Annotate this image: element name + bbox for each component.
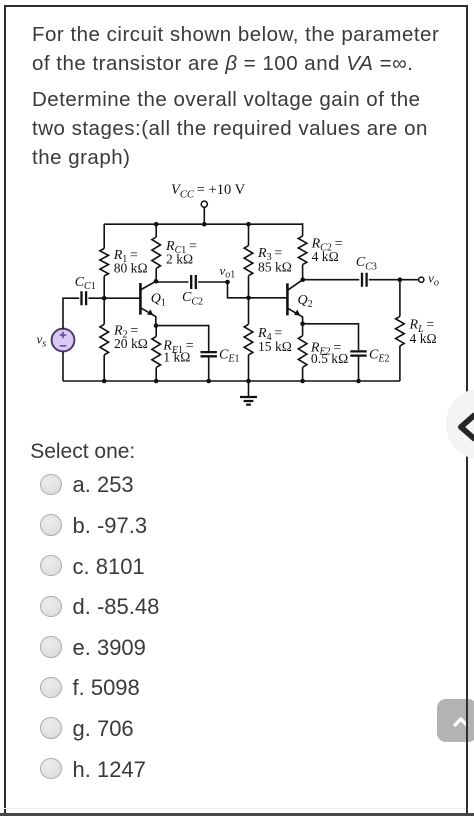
select one (30, 440, 135, 464)
junction dot emitter Q2 (300, 322, 305, 327)
junction dot ground rail CE1 (206, 379, 211, 384)
svg-text:1 kΩ: 1 kΩ (163, 349, 190, 364)
svg-text:vo1: vo1 (220, 263, 236, 281)
wire output node to vo terminal (400, 279, 418, 281)
VCC supply terminal (201, 201, 207, 207)
junction dot emitter Q1 (154, 323, 159, 328)
svg-text:20 kΩ: 20 kΩ (114, 336, 148, 351)
svg-text:4 kΩ: 4 kΩ (312, 249, 339, 264)
resistor RC1 2k (155, 224, 157, 237)
junction dot output node (398, 277, 403, 282)
Q2 emitter arrow (294, 310, 300, 316)
junction dot ground rail R2 (102, 379, 107, 384)
svg-text:CC3: CC3 (356, 255, 377, 272)
capacitor CC1 (82, 291, 87, 305)
junction dot collector Q1 (154, 279, 159, 284)
resistor RC2 4k (302, 223, 304, 236)
wire CC1 to base node (88, 297, 104, 299)
output terminal vo (419, 277, 424, 282)
scroll to top button (437, 699, 474, 742)
Q1 emitter arrow (147, 309, 153, 315)
junction dot VCC/top rail (202, 222, 207, 227)
wire Q2 collector to CC3 (303, 279, 360, 281)
wire CE2 to ground rail (358, 357, 360, 382)
right edge drawer handle circle (446, 388, 474, 460)
svg-text:4 kΩ: 4 kΩ (410, 331, 437, 346)
wire vs to CC1 (63, 298, 79, 329)
svg-text:15 kΩ: 15 kΩ (258, 339, 292, 354)
capacitor CE2 (350, 351, 366, 355)
junction dot ground rail R4/gnd (246, 379, 251, 384)
wire CE1 to ground rail (208, 357, 210, 381)
resistor RE2 0.5k (302, 324, 304, 336)
resistor RL 4k (399, 280, 401, 317)
svg-text:VCC = +10 V: VCC = +10 V (171, 182, 246, 200)
resistor R1 80k (103, 224, 105, 248)
ground (248, 381, 250, 397)
svg-text:vo: vo (428, 271, 439, 289)
resistor R3 85k (248, 224, 250, 245)
capacitor CE1 (201, 352, 217, 356)
wire top supply rail (104, 223, 302, 225)
junction dot ground rail CE2 (356, 379, 361, 384)
capacitor CC3 (362, 273, 367, 287)
svg-text:2 kΩ: 2 kΩ (166, 251, 193, 266)
junction dot RC1/top rail (154, 222, 159, 227)
wire CC3 to output node (369, 279, 400, 281)
junction dot R3/R4 node (246, 296, 251, 301)
junction dot R3/top rail (246, 222, 251, 227)
svg-text:vs: vs (37, 332, 47, 350)
wire Q1 collector to CC2 (156, 280, 188, 283)
card right border redrawn over buttons (466, 5, 468, 814)
bottom dark bar (0, 813, 474, 816)
svg-text:Q1: Q1 (151, 291, 166, 308)
svg-text:Q2: Q2 (298, 293, 313, 310)
svg-text:85 kΩ: 85 kΩ (258, 259, 292, 274)
svg-text:CE2: CE2 (369, 347, 389, 364)
wire vs to ground rail (62, 352, 64, 381)
svg-text:80 kΩ: 80 kΩ (114, 260, 148, 275)
source vs (52, 329, 75, 352)
options (40, 474, 62, 496)
resistor R2 20k (103, 298, 105, 324)
wire base Q1 (104, 297, 140, 299)
junction dot collector Q2 (301, 277, 306, 282)
transistor Q2 (286, 283, 289, 315)
svg-text:CE1: CE1 (219, 347, 239, 364)
resistor RE1 1k (155, 326, 157, 337)
transistor Q1 (139, 283, 142, 315)
svg-text:CC2: CC2 (182, 290, 203, 307)
junction dot ground rail RE1 (154, 379, 159, 384)
circuit schematic (0, 170, 474, 416)
svg-text:0.5 kΩ: 0.5 kΩ (311, 351, 348, 366)
capacitor CC2 (191, 275, 196, 289)
question text (32, 20, 472, 179)
wire ground rail (63, 380, 400, 382)
wire Q1 emitter to CE1 (156, 326, 209, 352)
card bottom hairline (4, 808, 468, 809)
svg-text:CC1: CC1 (75, 275, 96, 292)
wire Q2 emitter to CE2 (303, 324, 359, 350)
resistor R4 15k (248, 298, 250, 325)
junction dot node vo1 (225, 280, 230, 285)
wire CC2 to vo1 (198, 281, 227, 283)
wire vo1 down to Q2 base (228, 282, 288, 298)
junction dot ground rail RE2 (300, 379, 305, 384)
junction dot base node Q1 (102, 296, 107, 301)
